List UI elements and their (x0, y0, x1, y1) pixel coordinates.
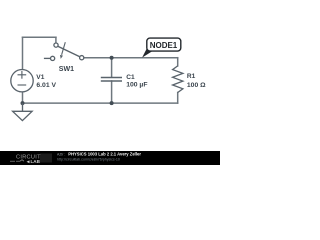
svg-text:SW1: SW1 (59, 66, 74, 73)
footer bar (0, 151, 220, 165)
V1 plus sign (18, 74, 27, 76)
V1 body circle (11, 70, 33, 92)
junction dot top (C1/top wire) (110, 56, 114, 60)
svg-text:LAB: LAB (31, 159, 41, 164)
SW1 throw terminal circle (left) (51, 56, 55, 60)
C1 bottom plate (101, 80, 122, 82)
V1 minus sign (18, 84, 27, 86)
svg-text:V1: V1 (36, 74, 44, 81)
svg-text:http://circuitlab.com/c/e8n76/: http://circuitlab.com/c/e8n76/physics-10 (57, 157, 120, 161)
footer darker panel (40, 154, 52, 163)
wire switch to R1 top corner (84, 57, 178, 59)
SW1 common terminal circle (right) (80, 56, 84, 60)
wire drop into switch (55, 37, 57, 43)
svg-text:100 Ω: 100 Ω (187, 82, 206, 89)
svg-text:6.01 V: 6.01 V (36, 82, 56, 89)
NODE1 callout box (147, 38, 181, 51)
CircuitLab logo LAB (27, 160, 30, 163)
svg-text:AZlr : PHYSICS 1003 Lab 2 2.1: AZlr : PHYSICS 1003 Lab 2 2.1 Avery Zell… (57, 152, 141, 157)
svg-text:R1: R1 (187, 73, 196, 80)
wire top horizontal (23, 36, 56, 38)
voltage source V1 (11, 70, 33, 92)
NODE1 callout tail (142, 48, 153, 57)
SW1 blade (58, 46, 80, 57)
ground symbol (13, 103, 32, 121)
wire R1 branch bottom (177, 93, 179, 104)
wire bottom horizontal (23, 102, 178, 104)
SW1 throw stub wire (44, 57, 50, 59)
capacitor C1 (101, 78, 122, 82)
wire left vertical (V1 top to top-left corner) (22, 37, 24, 69)
SW1 pole terminal circle (top) (54, 43, 58, 47)
SW1 actuator arrow shaft (62, 42, 66, 55)
svg-text:C1: C1 (126, 74, 135, 81)
wire V1 bottom (22, 92, 24, 103)
wire C1 bottom stub (111, 81, 113, 103)
svg-text:100 µF: 100 µF (126, 81, 147, 88)
CircuitLab logo waveform (10, 160, 24, 162)
R1 zigzag body (173, 66, 183, 93)
wire C1 top stub (111, 58, 113, 77)
switch SW1 (44, 42, 84, 60)
junction dot bottom (C1/bottom wire) (110, 101, 114, 105)
wire R1 branch top (177, 58, 179, 66)
svg-text:NODE1: NODE1 (150, 41, 178, 50)
junction dot V1/ground (21, 101, 25, 105)
C1 top plate (101, 77, 122, 79)
SW1 actuator arrowhead (60, 55, 63, 59)
